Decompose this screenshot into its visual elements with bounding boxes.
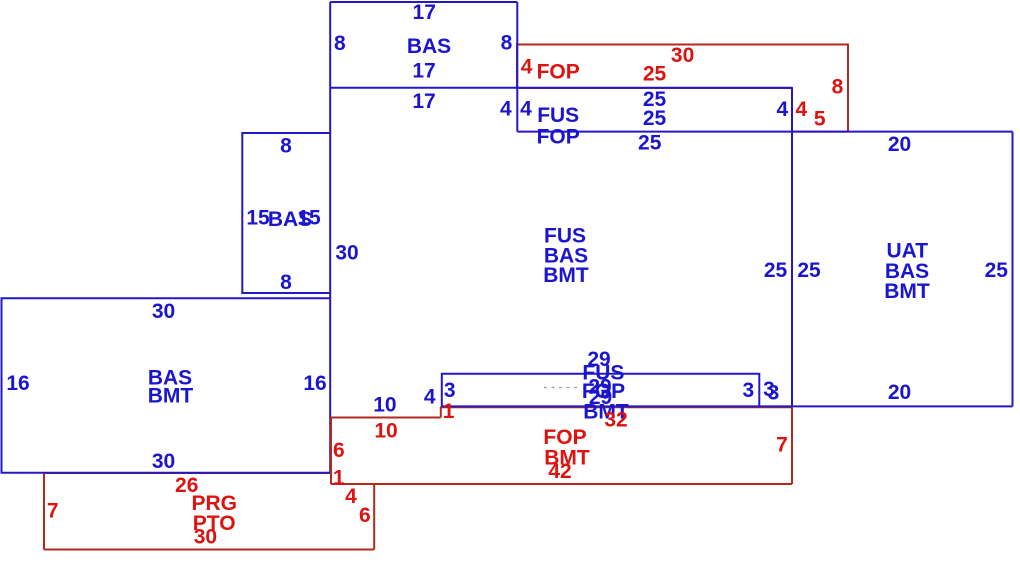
svg-text:4: 4: [500, 98, 512, 121]
svg-text:7: 7: [47, 500, 59, 523]
svg-text:20: 20: [888, 381, 911, 404]
svg-text:8: 8: [334, 32, 346, 55]
wire blue horizontal y=406.4: [442, 405, 1013, 407]
svg-text:BAS: BAS: [407, 35, 451, 58]
dashed marker line: [544, 387, 578, 389]
svg-text:17: 17: [412, 90, 435, 113]
svg-text:1: 1: [333, 467, 345, 490]
region PRG PTO (red) outline: visible segments over blue: [44, 474, 374, 550]
svg-text:4: 4: [521, 55, 533, 78]
wire blue horizontal y=131.6: [517, 131, 1012, 133]
svg-text:3: 3: [742, 379, 754, 402]
svg-text:16: 16: [6, 372, 29, 395]
svg-text:10: 10: [374, 420, 397, 443]
svg-text:3: 3: [768, 381, 780, 404]
svg-text:15: 15: [297, 207, 321, 230]
svg-text:32: 32: [604, 409, 627, 432]
svg-text:6: 6: [359, 504, 371, 527]
svg-text:20: 20: [888, 133, 911, 156]
wire blue vertical x=517.3: [516, 2, 518, 132]
region BAS BMT (blue, bottom-left) outline: [2, 298, 331, 472]
svg-text:42: 42: [548, 460, 571, 483]
svg-text:6: 6: [333, 439, 345, 462]
svg-text:17: 17: [413, 1, 436, 24]
svg-text:8: 8: [832, 75, 844, 98]
wire blue vertical x=792: [791, 88, 793, 407]
svg-text:3: 3: [444, 379, 456, 402]
region FUS FOP BMT (blue, small) outline: [442, 374, 760, 407]
region PRG PTO (red) outline: top segment under blue: [44, 472, 331, 474]
svg-text:30: 30: [194, 526, 217, 549]
svg-text:BMT: BMT: [884, 280, 930, 303]
svg-text:5: 5: [814, 107, 826, 130]
svg-text:25: 25: [985, 259, 1009, 282]
svg-text:4: 4: [345, 485, 357, 508]
svg-text:30: 30: [335, 242, 358, 265]
svg-text:4: 4: [520, 97, 532, 120]
svg-text:25: 25: [643, 107, 667, 130]
wire blue vertical x=1012.5: [1012, 132, 1014, 407]
svg-text:30: 30: [152, 300, 175, 323]
svg-text:17: 17: [412, 60, 435, 83]
svg-text:25: 25: [643, 62, 667, 85]
region FOP BMT (red) outline: visible segments over blue: [331, 407, 792, 485]
svg-text:25: 25: [764, 259, 788, 282]
svg-text:7: 7: [776, 434, 788, 457]
svg-text:BMT: BMT: [543, 264, 589, 287]
svg-text:4: 4: [795, 98, 807, 121]
svg-text:FOP: FOP: [537, 126, 580, 149]
svg-text:8: 8: [280, 271, 292, 294]
svg-text:25: 25: [638, 131, 662, 154]
region BAS (blue, middle-left) outline: [242, 133, 330, 293]
region FOP BMT (red, bottom) outline: top segment under blue: [441, 406, 792, 408]
svg-text:FUS: FUS: [537, 104, 579, 127]
svg-text:30: 30: [671, 44, 694, 67]
wire blue horizontal y=87.8: [330, 87, 792, 89]
svg-text:10: 10: [373, 393, 396, 416]
svg-text:FOP: FOP: [537, 61, 580, 84]
svg-text:1: 1: [443, 400, 455, 423]
svg-text:4: 4: [424, 385, 436, 408]
svg-text:25: 25: [797, 259, 821, 282]
region BAS (blue, top) outline: [330, 1, 517, 3]
svg-text:15: 15: [246, 207, 270, 230]
svg-text:BMT: BMT: [148, 385, 194, 408]
svg-text:16: 16: [303, 372, 326, 395]
wire blue vertical x=330.2: [329, 2, 331, 473]
svg-text:8: 8: [280, 135, 292, 158]
region FOP (red, top) outline: [517, 45, 848, 132]
svg-text:4: 4: [776, 98, 788, 121]
svg-text:30: 30: [152, 450, 175, 473]
svg-text:8: 8: [501, 32, 513, 55]
